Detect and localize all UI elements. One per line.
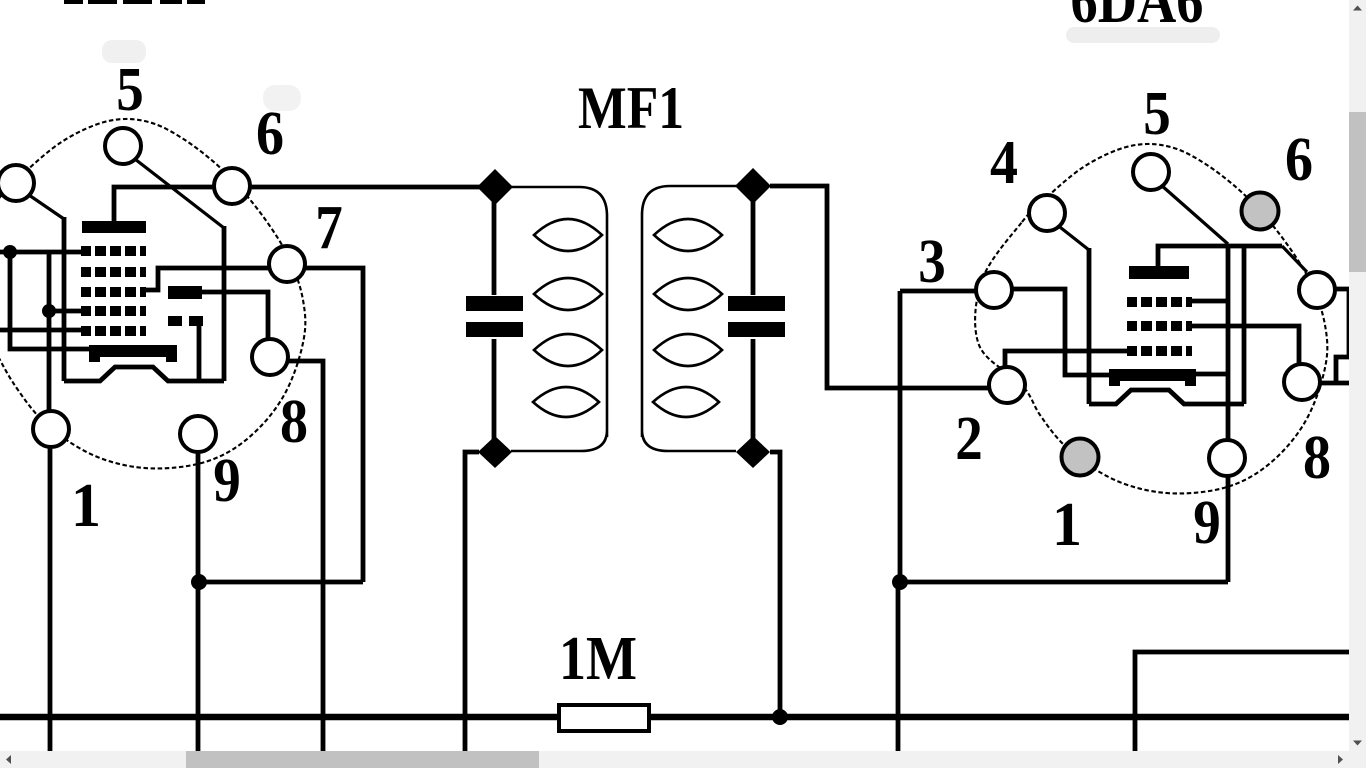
- svg-text:6: 6: [1285, 126, 1313, 194]
- wire: pin 5 to cathode right riser: [131, 156, 224, 228]
- pin 1 V1: [33, 411, 69, 447]
- coil L1 loop 1: [534, 219, 602, 251]
- wire: pin 8 to right edge: [1317, 381, 1366, 386]
- pin 4 V2: [1029, 195, 1065, 231]
- scrollbar horizontal track: [0, 751, 1349, 768]
- pin 4 V1: [0, 165, 34, 201]
- svg-text:1M: 1M: [559, 625, 637, 693]
- grid row3 V1: [81, 287, 146, 297]
- pin 1 V2 (metallised): [1062, 439, 1099, 476]
- tube V1 6BE6 label (cut off at top edge): [64, 0, 205, 4]
- pin 7 V1: [269, 246, 305, 282]
- wire: AVC rail horizontal: [198, 580, 363, 585]
- wire: grid rowB to pin 8: [1192, 326, 1299, 367]
- pin 5 V2: [1133, 154, 1169, 190]
- scrollbar left arrow: [6, 755, 11, 764]
- scrollbar vertical track: [1349, 0, 1366, 751]
- bottom bus wire right: [648, 714, 1349, 721]
- coil L1 loop 4: [533, 387, 599, 417]
- coil L1 loop 3: [534, 334, 602, 366]
- coil L1 primary hooks and core line: [510, 187, 607, 451]
- svg-text:1: 1: [71, 472, 101, 540]
- grid rowB V2: [1127, 321, 1192, 331]
- wire: cathode riser to anode rail: [1242, 246, 1247, 404]
- wire: below junction to bottom edge: [896, 582, 901, 751]
- wire: left edge to grid row5: [0, 328, 82, 333]
- wire: junction to grid row4: [49, 309, 82, 314]
- junction node MF1 secondary bottom: [736, 436, 770, 468]
- wire: MF1 secondary bottom to bottom bus: [770, 452, 780, 717]
- wire: pin 3 rail down to AVC: [900, 291, 994, 583]
- scrollbar corner: [1349, 751, 1366, 768]
- scrollbar up arrow: [1353, 6, 1362, 11]
- pin 7 V2: [1299, 272, 1335, 308]
- wire: suppressor to cathode: [197, 326, 202, 381]
- component box bottom right (partial): [1135, 652, 1349, 751]
- capacitor C2 leads: [751, 200, 756, 440]
- pin 2 V2: [989, 367, 1025, 403]
- coil L1 loop 2: [534, 278, 602, 310]
- pin 3 V2: [976, 272, 1012, 308]
- wire: riser to shield bar: [1196, 372, 1228, 377]
- coil L2 loop 1: [654, 219, 722, 251]
- pin 6 V1: [214, 168, 250, 204]
- wire: screen bar to pin 8: [202, 292, 268, 342]
- capacitor C2 plates: [728, 296, 785, 311]
- anode bar V2: [1129, 266, 1189, 279]
- wire: grid rowC to pin 2: [1005, 351, 1130, 368]
- scrollbar down arrow: [1353, 741, 1362, 746]
- grid row1 V1: [81, 246, 146, 256]
- wire: anode rail to pin 7 diagonal: [1282, 246, 1307, 272]
- wire: grid row1 to left edge: [0, 250, 82, 255]
- svg-text:2: 2: [955, 405, 983, 473]
- svg-text:1: 1: [1052, 491, 1082, 559]
- wire: AVC rail to pin 9 riser: [900, 580, 1228, 585]
- wire: V1 anode to pin 6: [114, 187, 216, 223]
- wire: pin 6 to MF1 primary top junction: [232, 185, 480, 190]
- wire: pin 5 diagonal: [1161, 185, 1228, 244]
- svg-text:4: 4: [990, 129, 1018, 197]
- coil L2 loop 2: [654, 278, 722, 310]
- wire: pin 7 staircase: [1331, 289, 1349, 381]
- grid rowA V2: [1127, 297, 1192, 307]
- shield bar V1: [89, 345, 177, 362]
- suppressor dashes V1: [168, 316, 203, 326]
- scrollbar vertical thumb: [1349, 112, 1366, 272]
- grid row2 V1: [81, 267, 146, 277]
- svg-text:MF1: MF1: [578, 75, 684, 141]
- svg-text:8: 8: [280, 388, 308, 456]
- svg-text:9: 9: [1193, 489, 1221, 557]
- wire: MF1 primary bottom to bottom edge: [465, 452, 479, 751]
- wire: pin 3 to shield bar: [1010, 289, 1110, 375]
- junction node MF1 primary top: [477, 169, 513, 205]
- pin 6 V2 (metallised): [1242, 193, 1279, 230]
- wire: V1 riser pin5/g1/pin9: [1226, 244, 1231, 582]
- svg-text:5: 5: [1143, 80, 1171, 148]
- wire: pin 9 down to bottom bus: [196, 450, 201, 751]
- junction node on pin1 riser: [42, 304, 56, 318]
- scrollbar right arrow: [1338, 755, 1343, 764]
- svg-text:7: 7: [315, 194, 343, 262]
- wire: grid row4 to pin 1: [47, 252, 52, 414]
- grid rowC V2: [1127, 346, 1192, 356]
- tube V2 envelope: [975, 144, 1327, 493]
- pin 9 V1: [180, 416, 216, 452]
- wire: grid row3 jog to pin 7: [146, 268, 273, 290]
- scrollbar horizontal thumb: [186, 751, 539, 768]
- svg-text:6: 6: [256, 100, 284, 168]
- wire: pin 4 to cathode line: [26, 193, 64, 219]
- wire: pin 1 down to bottom bus: [48, 444, 53, 751]
- capacitor C1 leads: [492, 200, 497, 440]
- grid row4 V1: [81, 306, 146, 316]
- cathode V2: [1089, 390, 1244, 404]
- pin 9 V2: [1209, 440, 1245, 476]
- wire: pin 8 down to bottom bus: [285, 361, 323, 751]
- bottom bus wire left: [0, 714, 560, 721]
- wire: pin 4 to cathode: [1056, 224, 1089, 250]
- coil L2 loop 3: [654, 334, 722, 366]
- junction node MF1 secondary top: [735, 168, 771, 204]
- wire: MF1 secondary top to V2 grid: [770, 186, 992, 388]
- junction node pin9/AVC: [191, 574, 207, 590]
- svg-text:8: 8: [1303, 424, 1331, 492]
- capacitor C1 plates: [466, 296, 523, 311]
- junction node AVC rail V2: [892, 574, 908, 590]
- tube V1 envelope: [0, 119, 305, 468]
- grid row5 V1: [81, 326, 146, 336]
- junction node on grid row1 wire: [3, 245, 17, 259]
- coil L2 secondary hooks and core line: [642, 186, 737, 451]
- junction node bottom bus: [772, 709, 788, 725]
- pin 8 V2: [1284, 364, 1320, 400]
- pin 8 V1: [252, 339, 288, 375]
- junction node MF1 primary bottom: [478, 436, 512, 468]
- coil L2 loop 4: [653, 387, 719, 417]
- anode bar V1: [82, 221, 146, 233]
- screen bar V1: [168, 286, 202, 299]
- wire: left edge down to shield bar: [10, 252, 92, 349]
- shield bar V2: [1109, 369, 1196, 386]
- wire: grid rowA to riser: [1192, 299, 1228, 304]
- wire: pin 7 right then down to AVC rail: [301, 268, 363, 582]
- svg-text:5: 5: [116, 56, 144, 124]
- cathode V1: [64, 367, 224, 381]
- pin 5 V1: [105, 128, 141, 164]
- svg-text:6DA6: 6DA6: [1071, 0, 1204, 36]
- svg-text:3: 3: [918, 228, 946, 296]
- resistor R1 body: [559, 705, 649, 731]
- svg-text:9: 9: [213, 447, 241, 515]
- wire: V2 anode rail: [1158, 246, 1282, 266]
